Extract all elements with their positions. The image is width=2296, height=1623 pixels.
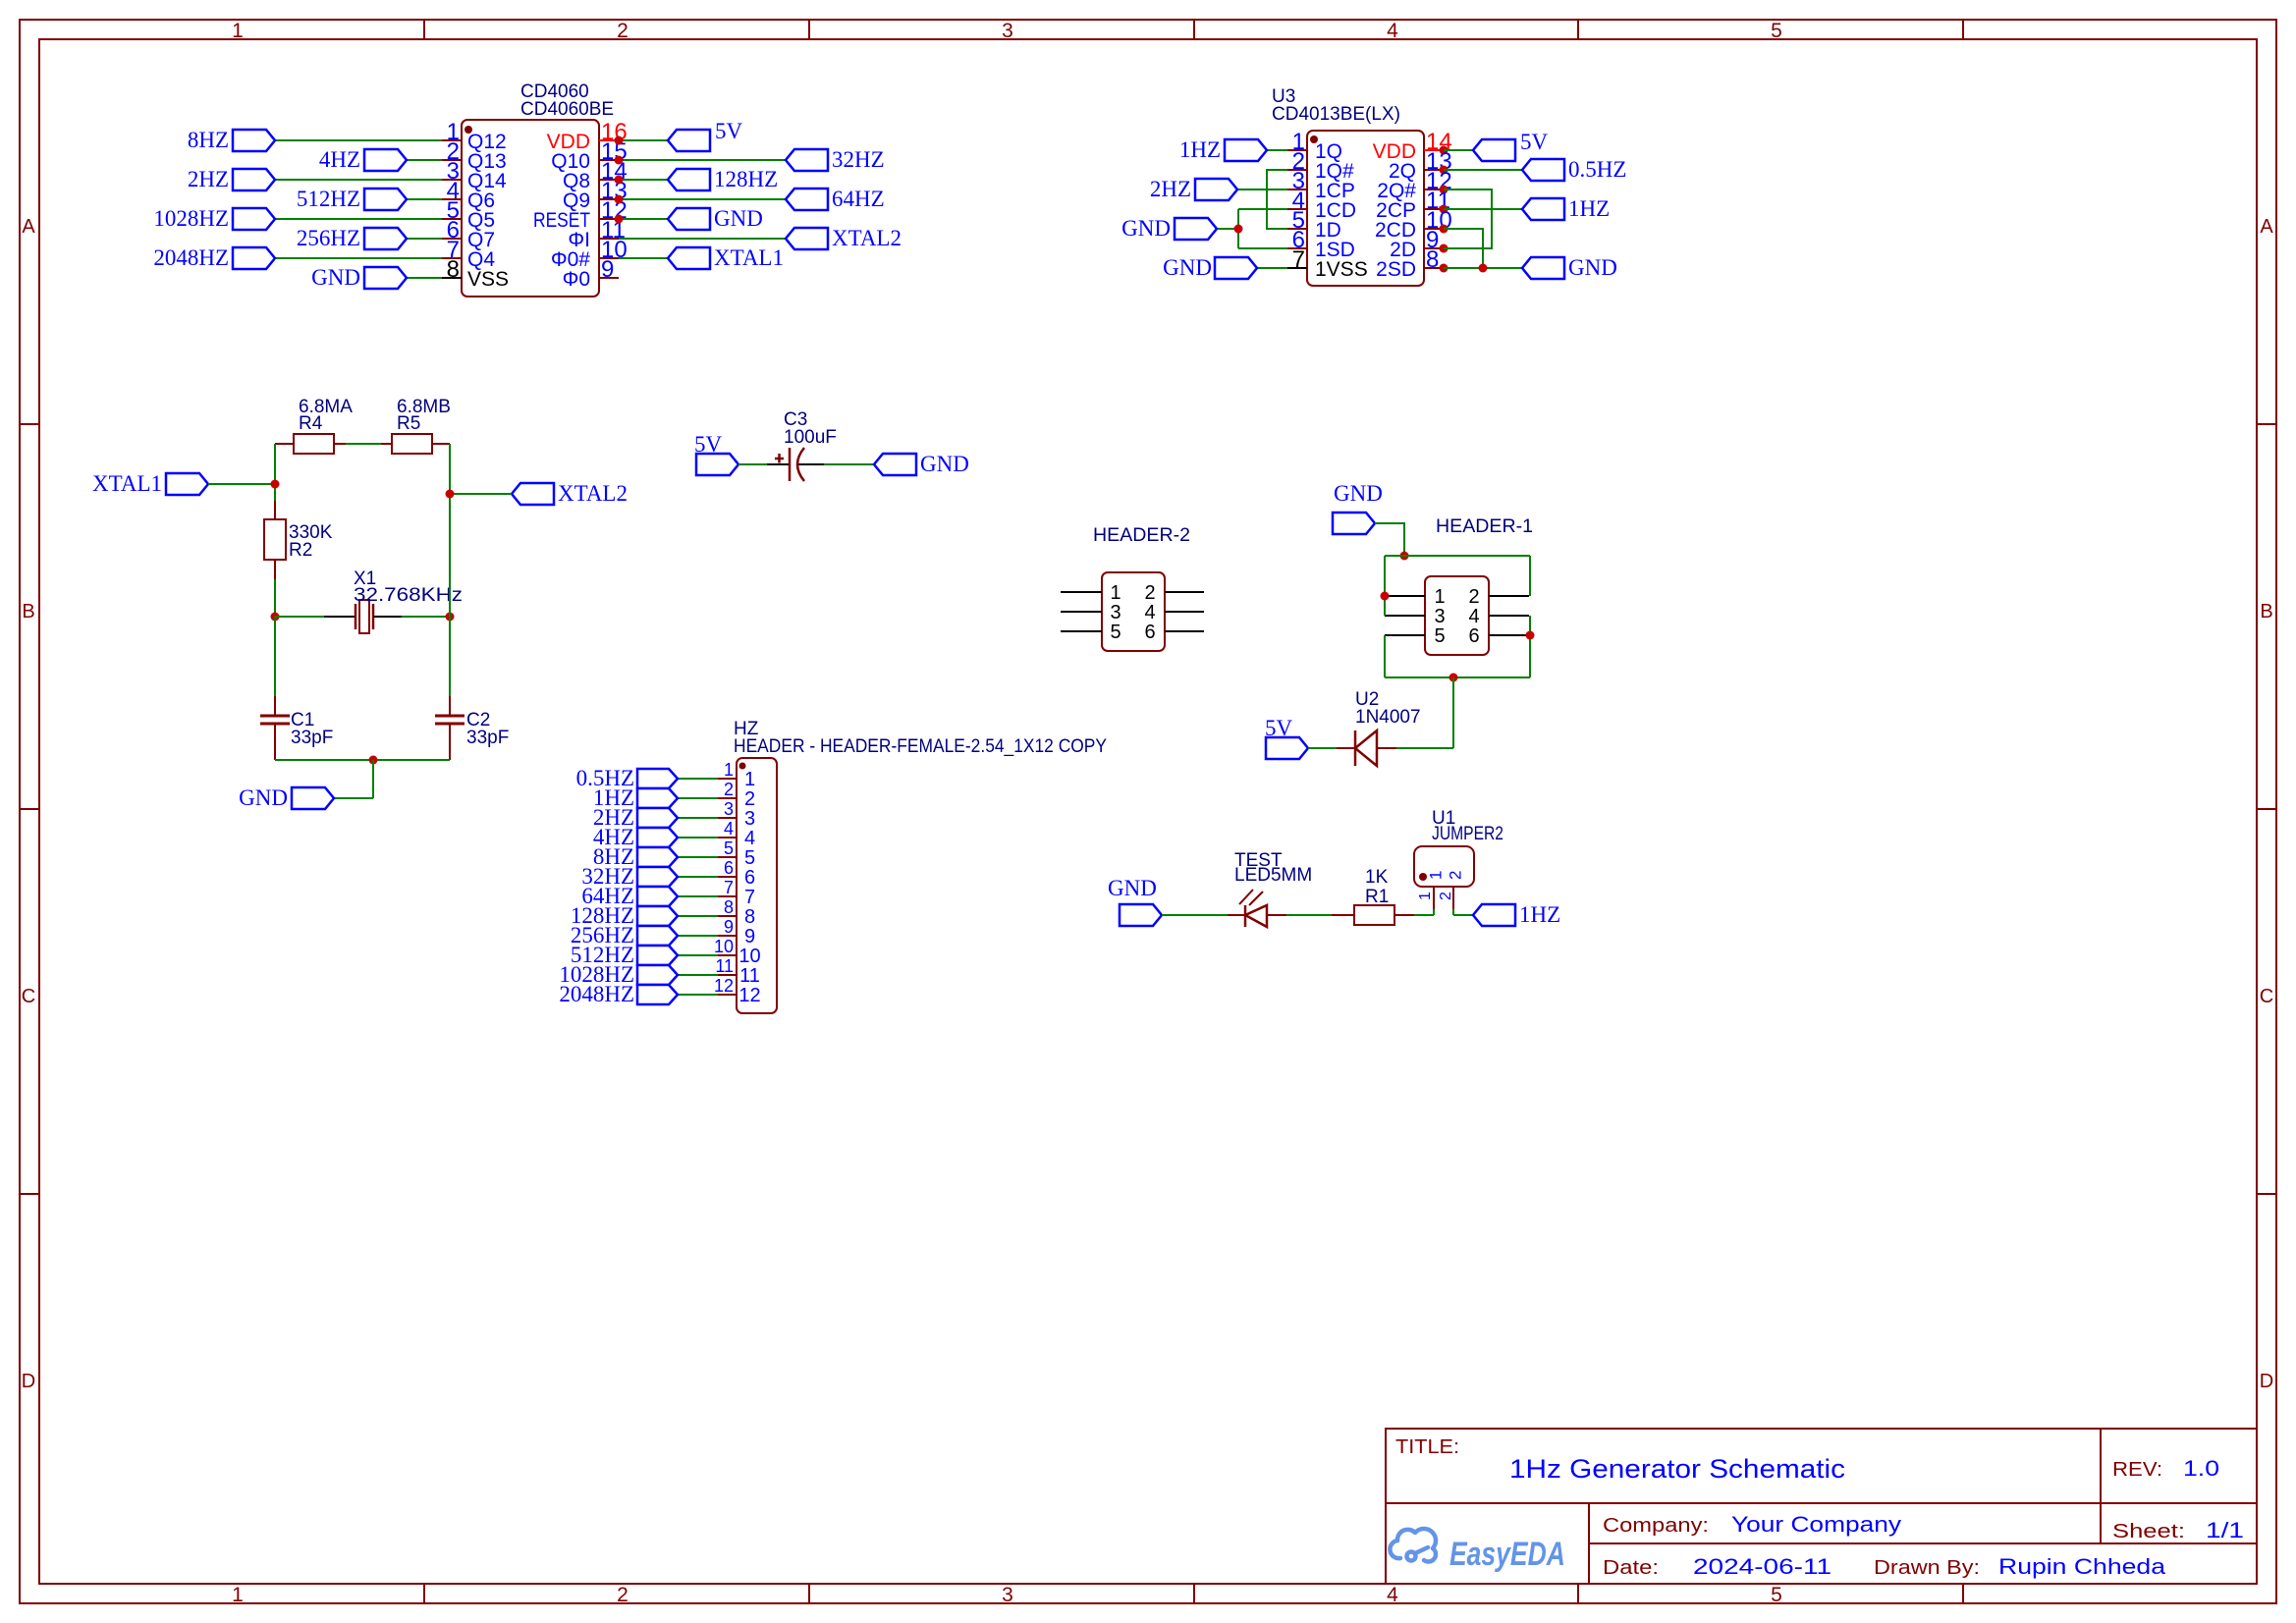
svg-text:3: 3 — [1110, 602, 1121, 623]
svg-text:7: 7 — [724, 878, 734, 897]
svg-text:4: 4 — [1387, 20, 1398, 42]
svg-text:1: 1 — [1434, 586, 1445, 608]
svg-text:5: 5 — [1771, 1584, 1782, 1606]
junction — [446, 613, 455, 622]
wire U1 pin2 to 1HZ — [1453, 914, 1473, 916]
U3 pin-1 orientation dot — [1310, 135, 1318, 143]
svg-text:EasyEDA: EasyEDA — [1449, 1536, 1565, 1573]
svg-text:A: A — [22, 216, 35, 238]
HZ pin 7 — [718, 895, 737, 897]
svg-text:2: 2 — [1447, 871, 1465, 880]
net flag 2048HZ — [233, 247, 275, 269]
junction — [615, 215, 624, 224]
svg-text:HEADER-2: HEADER-2 — [1093, 525, 1190, 546]
svg-text:1HZ: 1HZ — [1179, 137, 1221, 162]
wire 8HZ to CD4060 — [275, 139, 442, 141]
HEADER-1 pin 6 — [1489, 634, 1529, 636]
svg-text:8: 8 — [1426, 246, 1439, 273]
HEADER-1 pin 4 — [1489, 615, 1529, 617]
svg-text:5: 5 — [1110, 622, 1121, 643]
net flag 64HZ (HZ) — [678, 895, 718, 897]
CD4060 pin 7 Q4 — [442, 257, 462, 259]
svg-text:1: 1 — [232, 20, 244, 42]
svg-text:6: 6 — [1144, 622, 1155, 643]
U3 pin 8 2SD — [1424, 267, 1444, 269]
svg-text:5V: 5V — [1520, 130, 1549, 154]
junction — [1479, 264, 1488, 273]
wire CD4060 to 32HZ — [619, 159, 786, 161]
junction — [1440, 244, 1449, 253]
wire GND to 1CD and 1SD — [1237, 209, 1239, 248]
net flag GND (C3) — [874, 454, 916, 475]
svg-text:2: 2 — [724, 780, 734, 799]
CD4060 pin 4 Q6 — [442, 198, 462, 200]
HEADER-2 pin 5 — [1061, 630, 1102, 632]
HZ pin 2 — [718, 797, 737, 799]
svg-text:Company:: Company: — [1603, 1515, 1709, 1537]
wire GND drop — [372, 760, 374, 798]
net flag 2HZ — [233, 169, 275, 190]
svg-text:1: 1 — [724, 760, 734, 780]
svg-text:100uF: 100uF — [784, 427, 837, 448]
svg-text:8: 8 — [744, 906, 755, 928]
svg-text:1: 1 — [744, 769, 755, 790]
wire CD4060 to 128HZ — [619, 179, 668, 181]
svg-text:8: 8 — [724, 897, 734, 917]
wire right vertical (XTAL2 net) — [449, 444, 451, 617]
U3 pin 6 1SD — [1287, 247, 1307, 249]
svg-text:VSS: VSS — [467, 268, 509, 291]
CD4060 pin 1 Q12 — [442, 139, 462, 141]
svg-text:5: 5 — [744, 847, 755, 869]
svg-text:33pF: 33pF — [466, 728, 509, 748]
wire CD4060 to 5V — [619, 139, 668, 141]
svg-text:JUMPER2: JUMPER2 — [1432, 824, 1503, 844]
svg-text:XTAL2: XTAL2 — [832, 226, 902, 250]
CD4060 pin 14 Q8 — [599, 179, 619, 181]
net flag 5V (U3 pin14) — [1444, 149, 1473, 151]
net flag 1HZ (U3 pin1) — [1267, 149, 1287, 151]
junction — [1234, 225, 1243, 234]
net flag 8HZ — [233, 130, 275, 151]
svg-text:1: 1 — [1427, 871, 1446, 880]
svg-text:2HZ: 2HZ — [1150, 177, 1191, 201]
svg-text:0.5HZ: 0.5HZ — [1568, 157, 1626, 182]
junction — [615, 156, 624, 165]
junction — [446, 490, 455, 499]
net flag GND — [364, 267, 407, 289]
svg-text:12: 12 — [714, 976, 734, 996]
junction — [1440, 264, 1449, 273]
svg-text:1K: 1K — [1365, 867, 1389, 888]
svg-text:128HZ: 128HZ — [714, 167, 778, 191]
net flag 5V (C3) — [696, 454, 738, 475]
svg-text:4: 4 — [1387, 1584, 1398, 1606]
wire CD4060 to 64HZ — [619, 198, 786, 200]
CD4060 pin 11 ΦI — [599, 238, 619, 240]
net flag XTAL1 — [668, 247, 710, 269]
wire GND to LED — [1162, 914, 1228, 916]
wire CD4060 to XTAL1 — [619, 257, 668, 259]
U3 pin 5 1D — [1287, 228, 1307, 230]
svg-text:32HZ: 32HZ — [832, 147, 885, 172]
net flag 128HZ — [668, 169, 710, 190]
resistor R2 330K — [274, 501, 276, 519]
svg-text:5: 5 — [1434, 625, 1445, 647]
net flag GND (U3 pins 4,6) — [1217, 228, 1238, 230]
HEADER-2 pin 3 — [1061, 611, 1102, 613]
wire U3 2Q# to 2D — [1444, 189, 1492, 248]
title block frame — [1386, 1429, 2257, 1584]
HZ pin 1 — [718, 778, 737, 780]
HZ pin 10 — [718, 954, 737, 956]
net flag 32HZ — [786, 149, 828, 171]
junction — [1449, 674, 1458, 682]
net flag XTAL2 — [786, 228, 828, 249]
svg-text:5V: 5V — [694, 432, 723, 457]
svg-text:1VSS: 1VSS — [1315, 258, 1368, 281]
svg-text:GND: GND — [239, 785, 288, 810]
net flag 2HZ (HZ) — [678, 817, 718, 819]
junction — [1440, 186, 1449, 194]
wire right vertical pins 4,6 — [1529, 616, 1531, 677]
wire left vertical (XTAL1 net) — [274, 444, 276, 501]
junction — [615, 195, 624, 204]
wire C3 to GND — [824, 463, 874, 465]
svg-text:2: 2 — [1438, 892, 1454, 900]
IC CD4060 / CD4060BE body — [462, 120, 599, 297]
svg-text:2: 2 — [1144, 582, 1155, 604]
HEADER-1 pin 1 — [1385, 595, 1425, 597]
svg-text:A: A — [2260, 216, 2273, 238]
net flag 0.5HZ (U3 pin13) — [1444, 169, 1522, 171]
svg-text:TITLE:: TITLE: — [1395, 1436, 1459, 1458]
net flag 1028HZ — [233, 208, 275, 230]
net flag 4HZ (HZ) — [678, 837, 718, 839]
svg-text:9: 9 — [724, 917, 734, 937]
svg-text:GND: GND — [920, 452, 969, 476]
svg-text:3: 3 — [724, 799, 734, 819]
svg-text:5: 5 — [724, 839, 734, 858]
wire 1028HZ to CD4060 — [275, 218, 442, 220]
wire 4HZ to CD4060 — [407, 159, 442, 161]
HEADER-1 pin 5 — [1385, 634, 1425, 636]
HZ pin 5 — [718, 856, 737, 858]
svg-text:9: 9 — [601, 256, 614, 283]
net flag 5V (U2) — [1266, 737, 1308, 759]
net flag 512HZ — [364, 189, 407, 210]
svg-text:4: 4 — [1468, 606, 1479, 627]
svg-text:GND: GND — [1121, 216, 1171, 241]
svg-text:7: 7 — [1292, 246, 1305, 273]
svg-text:GND: GND — [1568, 255, 1617, 280]
svg-text:3: 3 — [1434, 606, 1445, 627]
HZ pin-1 orientation dot — [739, 763, 746, 770]
CD4060 pin 15 Q10 — [599, 159, 619, 161]
wire GND to header top rail — [1375, 523, 1404, 556]
net flag GND — [668, 208, 710, 230]
CD4060 pin 10 Φ0# — [599, 257, 619, 259]
wire right vertical pin 2 — [1529, 556, 1531, 596]
U2 diode symbol — [1337, 747, 1355, 749]
CD4060 pin 3 Q14 — [442, 179, 462, 181]
U3 pin 9 2D — [1424, 247, 1444, 249]
svg-text:1: 1 — [1110, 582, 1121, 604]
svg-text:3: 3 — [1002, 1584, 1013, 1606]
svg-text:GND: GND — [714, 206, 763, 231]
wire U3 2CD to GND net — [1444, 229, 1483, 268]
wire 2HZ to CD4060 — [275, 179, 442, 181]
CD4060 pin 13 Q9 — [599, 198, 619, 200]
svg-text:XTAL1: XTAL1 — [92, 471, 162, 496]
svg-text:XTAL1: XTAL1 — [714, 245, 784, 270]
svg-text:5V: 5V — [1265, 716, 1293, 740]
svg-text:HEADER-1: HEADER-1 — [1436, 516, 1533, 537]
svg-text:1: 1 — [232, 1584, 244, 1606]
junction — [271, 613, 280, 622]
svg-text:D: D — [22, 1371, 35, 1392]
svg-text:C: C — [2260, 986, 2273, 1007]
HEADER-2 pin 2 — [1165, 591, 1204, 593]
junction — [1440, 225, 1449, 234]
wire 2048HZ to CD4060 — [275, 257, 442, 259]
svg-text:1Hz Generator Schematic: 1Hz Generator Schematic — [1509, 1454, 1845, 1484]
U3 pin 12 2Q# — [1424, 189, 1444, 190]
wire R4-R5 — [346, 443, 381, 445]
junction — [1440, 166, 1449, 175]
svg-text:4: 4 — [724, 819, 734, 839]
svg-text:LED5MM: LED5MM — [1234, 865, 1312, 886]
junction — [615, 176, 624, 185]
junction — [615, 136, 624, 145]
CD4060 pin 9 Φ0 — [599, 277, 619, 279]
net flag 128HZ (HZ) — [678, 915, 718, 917]
svg-text:2HZ: 2HZ — [188, 167, 229, 191]
U3 pin 7 1VSS — [1287, 267, 1307, 269]
svg-text:7: 7 — [744, 887, 755, 908]
crystal X1 32.768KHz — [275, 616, 324, 618]
svg-text:Φ0: Φ0 — [563, 268, 590, 291]
svg-text:Drawn By:: Drawn By: — [1874, 1557, 1980, 1579]
svg-text:2: 2 — [617, 1584, 629, 1606]
svg-text:9: 9 — [744, 926, 755, 947]
svg-text:12: 12 — [738, 985, 760, 1006]
HEADER-2 pin 4 — [1165, 611, 1204, 613]
svg-text:HEADER - HEADER-FEMALE-2.54_1X: HEADER - HEADER-FEMALE-2.54_1X12 COPY — [734, 736, 1107, 757]
net flag 32HZ (HZ) — [678, 876, 718, 878]
svg-text:33pF: 33pF — [291, 728, 333, 748]
svg-text:8HZ: 8HZ — [188, 128, 229, 152]
wire 5V to U2 — [1308, 747, 1337, 749]
U3 pin 3 1CP — [1287, 189, 1307, 190]
svg-text:5: 5 — [1771, 20, 1782, 42]
wire header top rail — [1385, 555, 1530, 557]
svg-text:32.768KHz: 32.768KHz — [354, 585, 463, 606]
U1 pin 1 — [1433, 887, 1435, 909]
HEADER-1 pin 3 — [1385, 615, 1425, 617]
svg-text:6: 6 — [724, 858, 734, 878]
U3 pin 11 2CP — [1424, 208, 1444, 210]
net flag 5V — [668, 130, 710, 151]
net flag 8HZ (HZ) — [678, 856, 718, 858]
wire bottom rail to GND — [275, 759, 450, 761]
CD4060 pin 8 VSS — [442, 277, 462, 279]
IC U3 CD4013BE(LX) body — [1307, 131, 1424, 286]
svg-text:64HZ: 64HZ — [832, 187, 885, 211]
svg-text:GND: GND — [1108, 876, 1157, 900]
wire CD4060 to XTAL2 — [619, 238, 786, 240]
wire 256HZ to CD4060 — [407, 238, 442, 240]
svg-text:10: 10 — [714, 937, 734, 956]
U3 pin 4 1CD — [1287, 208, 1307, 210]
svg-text:REV:: REV: — [2112, 1459, 2162, 1481]
HZ pin 9 — [718, 935, 737, 937]
svg-text:1/1: 1/1 — [2206, 1518, 2244, 1542]
net flag 1HZ (HZ) — [678, 797, 718, 799]
svg-text:5V: 5V — [715, 119, 743, 143]
net flag GND (U3 pin7) — [1257, 267, 1287, 269]
junction — [1440, 205, 1449, 214]
CD4060 pin 12 RESET — [599, 218, 619, 220]
svg-text:256HZ: 256HZ — [297, 226, 360, 250]
svg-text:1N4007: 1N4007 — [1355, 707, 1421, 728]
svg-text:4: 4 — [1144, 602, 1155, 623]
wire LED to R1 — [1286, 914, 1332, 916]
svg-text:2024-06-11: 2024-06-11 — [1693, 1554, 1831, 1579]
CD4060 pin 2 Q13 — [442, 159, 462, 161]
svg-text:2SD: 2SD — [1376, 258, 1416, 281]
svg-text:10: 10 — [738, 946, 760, 967]
svg-text:Rupin Chheda: Rupin Chheda — [1998, 1554, 2166, 1579]
capacitor C2 33pF — [449, 617, 451, 696]
svg-text:11: 11 — [739, 965, 760, 987]
U3 pin 13 2Q — [1424, 169, 1444, 171]
junction — [1526, 631, 1535, 640]
EasyEDA logo — [1390, 1529, 1436, 1562]
CD4060 pin 5 Q5 — [442, 218, 462, 220]
CD4060 pin-1 orientation dot — [465, 126, 472, 134]
junction — [1400, 552, 1409, 561]
svg-text:2: 2 — [1468, 586, 1479, 608]
svg-text:1: 1 — [1417, 892, 1434, 900]
net flag XTAL1 — [166, 473, 208, 495]
svg-text:B: B — [22, 601, 34, 622]
net flag GND (U3 pin8) — [1444, 267, 1522, 269]
wire left pin5 to bottom rail — [1384, 635, 1386, 677]
svg-text:B: B — [2260, 601, 2272, 622]
svg-text:Date:: Date: — [1603, 1557, 1659, 1579]
svg-text:R5: R5 — [397, 413, 420, 434]
svg-text:XTAL2: XTAL2 — [558, 481, 628, 506]
svg-text:2: 2 — [744, 788, 755, 810]
svg-text:11: 11 — [715, 956, 734, 976]
net flag 512HZ (HZ) — [678, 954, 718, 956]
HEADER-2 pin 1 — [1061, 591, 1102, 593]
wire 5V to C3 — [738, 463, 767, 465]
svg-text:CD4060BE: CD4060BE — [520, 99, 614, 120]
svg-text:1028HZ: 1028HZ — [153, 206, 229, 231]
svg-text:2048HZ: 2048HZ — [559, 982, 634, 1006]
svg-text:GND: GND — [311, 265, 360, 290]
HZ pin 8 — [718, 915, 737, 917]
HZ pin 11 — [718, 974, 737, 976]
U3 pin 1 1Q — [1287, 149, 1307, 151]
net flag 2048HZ (HZ) — [678, 994, 718, 996]
wire GND to CD4060 — [407, 277, 442, 279]
net flag 0.5HZ (HZ) — [678, 778, 718, 780]
capacitor C3 100uF polarized — [767, 463, 790, 465]
svg-text:4HZ: 4HZ — [319, 147, 360, 172]
HEADER-2 pin 6 — [1165, 630, 1204, 632]
svg-text:GND: GND — [1334, 481, 1383, 506]
svg-text:1.0: 1.0 — [2183, 1456, 2219, 1481]
net flag 64HZ — [786, 189, 828, 210]
wire U2 to HEADER-1 — [1396, 747, 1453, 749]
svg-text:512HZ: 512HZ — [297, 187, 360, 211]
net flag 1HZ (output) — [1473, 904, 1515, 926]
HZ pin 3 — [718, 817, 737, 819]
svg-text:Sheet:: Sheet: — [2112, 1521, 2185, 1542]
U3 pin 2 1Q# — [1287, 169, 1307, 171]
svg-text:R4: R4 — [299, 413, 323, 434]
svg-text:2048HZ: 2048HZ — [153, 245, 229, 270]
svg-text:GND: GND — [1163, 255, 1212, 280]
junction — [1381, 592, 1390, 601]
svg-text:R2: R2 — [289, 540, 312, 561]
CD4060 pin 16 VDD — [599, 139, 619, 141]
svg-text:4: 4 — [744, 828, 755, 849]
junction — [1440, 146, 1449, 155]
capacitor C1 33pF — [274, 617, 276, 696]
net flag 2HZ (U3 pin3) — [1237, 189, 1287, 190]
svg-text:8: 8 — [447, 256, 460, 283]
svg-text:3: 3 — [744, 808, 755, 830]
net flag 256HZ (HZ) — [678, 935, 718, 937]
net flag XTAL2 — [512, 483, 554, 505]
wire bottom rail to U2 — [1452, 677, 1454, 748]
net flag 256HZ — [364, 228, 407, 249]
HZ pin 4 — [718, 837, 737, 839]
junction — [369, 756, 378, 765]
junction — [271, 480, 280, 489]
U3 pin 10 2CD — [1424, 228, 1444, 230]
svg-text:3: 3 — [1002, 20, 1013, 42]
svg-text:2: 2 — [617, 20, 629, 42]
wire bottom rail — [1385, 676, 1530, 678]
svg-text:D: D — [2260, 1371, 2273, 1392]
U3 pin 14 VDD — [1424, 149, 1444, 151]
CD4060 pin 6 Q7 — [442, 238, 462, 240]
svg-text:6: 6 — [1468, 625, 1479, 647]
net flag 1HZ (U3 pin11) — [1444, 208, 1522, 210]
wire U3 1Q# to 1D — [1267, 170, 1287, 229]
svg-text:1HZ: 1HZ — [1568, 196, 1610, 221]
wire 512HZ to CD4060 — [407, 198, 442, 200]
svg-text:C: C — [22, 986, 35, 1007]
HZ pin 6 — [718, 876, 737, 878]
wire R2 to crystal node — [274, 579, 276, 617]
svg-text:R1: R1 — [1365, 887, 1389, 907]
U1 pin 2 — [1452, 887, 1454, 909]
wire left vertical pins 1,3 — [1384, 556, 1386, 616]
svg-text:Your Company: Your Company — [1731, 1512, 1901, 1537]
resistor R5 6.8MB — [381, 443, 392, 445]
svg-text:1HZ: 1HZ — [1519, 902, 1560, 927]
wire CD4060 to GND — [619, 218, 668, 220]
resistor R4 6.8MA — [275, 443, 294, 445]
HZ pin 12 — [718, 994, 737, 996]
HEADER-1 pin 2 — [1489, 595, 1529, 597]
